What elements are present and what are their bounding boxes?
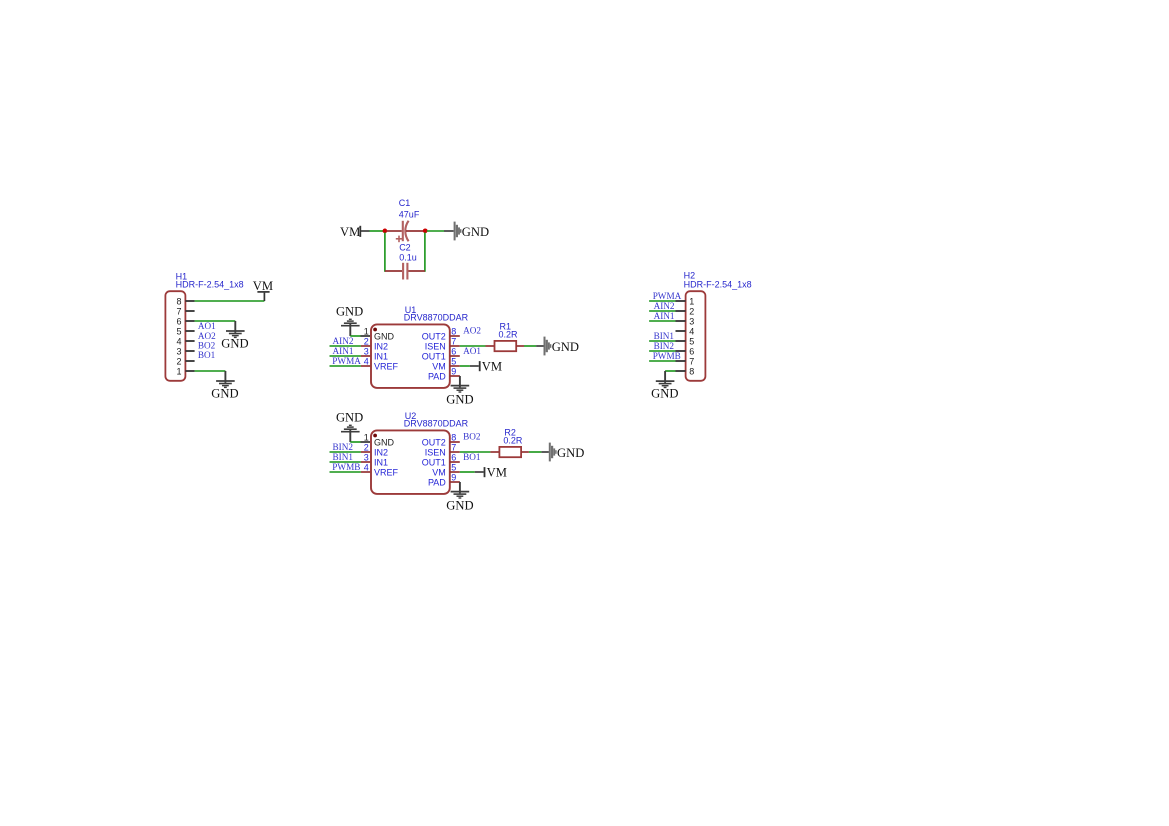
svg-text:8: 8	[176, 296, 181, 306]
wire H1 pin8 to VM	[195, 300, 265, 302]
U1 pin 7	[450, 337, 460, 347]
svg-text:2: 2	[689, 306, 694, 316]
ground GND (U2 PAD)	[446, 492, 473, 513]
H1 pin 5	[176, 326, 194, 336]
svg-text:2: 2	[364, 442, 369, 452]
svg-text:IN1: IN1	[374, 458, 388, 468]
U2 pin name VM	[432, 468, 446, 478]
svg-text:3: 3	[364, 452, 369, 462]
svg-text:1: 1	[689, 296, 694, 306]
U1 pin 6	[450, 347, 460, 357]
net label BO1	[463, 452, 481, 462]
svg-text:GND: GND	[336, 410, 363, 424]
U2 pin name VREF	[374, 468, 399, 478]
wire net AIN1 (H2 pin 3)	[649, 320, 675, 322]
wire U2 ISEN to R2	[460, 451, 500, 453]
svg-text:BIN2: BIN2	[333, 442, 354, 452]
svg-text:7: 7	[689, 356, 694, 366]
U2 pin name ISEN	[425, 448, 446, 458]
U1 pin 9	[450, 367, 460, 377]
wire net BIN2 (H2 pin 6)	[649, 350, 675, 352]
ground GND (H1 pin1)	[211, 371, 238, 400]
power flag VM (input cap)	[340, 225, 370, 239]
wire GND to U2 pin1	[350, 441, 370, 443]
wire junction to GND flag	[427, 230, 454, 232]
U2 pin-1 marker dot	[373, 434, 377, 438]
U2 pin name OUT1	[422, 458, 446, 468]
svg-text:AO1: AO1	[463, 346, 481, 356]
svg-text:BO2: BO2	[198, 340, 216, 350]
svg-text:VREF: VREF	[374, 362, 399, 372]
wire H1 pin1 to GND	[195, 370, 226, 372]
svg-text:4: 4	[364, 356, 369, 366]
svg-text:8: 8	[451, 433, 456, 443]
net label PWMA	[332, 356, 361, 366]
svg-text:8: 8	[689, 366, 694, 376]
svg-text:7: 7	[451, 443, 456, 453]
svg-text:GND: GND	[446, 393, 473, 407]
resistor R2 designator	[504, 428, 516, 438]
U2 pin 8	[450, 433, 460, 443]
svg-text:7: 7	[451, 337, 456, 347]
ground flag GND (U1 pin1)	[336, 304, 363, 336]
IC U1 body	[371, 324, 450, 388]
H2 pin 4	[676, 326, 695, 336]
svg-text:BO2: BO2	[463, 431, 481, 441]
U2 pin name PAD	[428, 478, 446, 488]
svg-text:OUT1: OUT1	[422, 352, 446, 362]
resistor R1	[495, 341, 517, 351]
svg-text:OUT2: OUT2	[422, 438, 446, 448]
U2 pin 9	[450, 473, 460, 483]
svg-text:3: 3	[176, 346, 181, 356]
svg-text:1: 1	[176, 366, 181, 376]
U1 pin name IN2	[374, 342, 388, 352]
H2 pin 5	[676, 336, 695, 346]
svg-text:AIN1: AIN1	[654, 311, 675, 321]
svg-text:AIN1: AIN1	[333, 346, 354, 356]
U1 pin name GND	[374, 332, 395, 342]
net label AIN2	[333, 336, 354, 346]
capacitor C2 designator	[399, 243, 411, 253]
svg-text:HDR-F-2.54_1x8: HDR-F-2.54_1x8	[176, 280, 244, 290]
net label AIN1	[333, 346, 354, 356]
svg-text:C2: C2	[399, 243, 411, 253]
connector H2 designator	[684, 270, 696, 280]
svg-text:IN2: IN2	[374, 342, 388, 352]
ground GND (H2 pin8)	[651, 371, 678, 401]
U1 pin 8	[450, 327, 460, 337]
svg-text:GND: GND	[221, 337, 248, 351]
resistor R2 value 0.2R	[503, 436, 523, 446]
ground GND (U1 PAD)	[446, 386, 473, 407]
wire U1 VM pin	[460, 365, 479, 367]
net label BO2	[198, 340, 216, 350]
net label AIN2 (H2)	[654, 301, 675, 311]
svg-text:IN2: IN2	[374, 448, 388, 458]
connector H2 body	[686, 291, 706, 381]
net label BIN2	[333, 442, 354, 452]
junction (right)	[423, 228, 428, 233]
H2 pin 2	[676, 306, 695, 316]
power flag VM (U1)	[480, 359, 502, 373]
svg-text:GND: GND	[557, 446, 584, 460]
wire U1 PAD to GND	[459, 376, 461, 387]
connector H1 footprint HDR-F-2.54_1x8	[176, 280, 244, 290]
svg-text:GND: GND	[651, 387, 678, 401]
wire GND to U1 pin1	[350, 335, 370, 337]
wire net BIN1	[330, 461, 361, 463]
H2 pin 8	[676, 366, 695, 376]
svg-text:6: 6	[451, 347, 456, 357]
U2 pin name GND	[374, 438, 395, 448]
IC U2 part number DRV8870DDAR	[404, 418, 469, 428]
wire R1 to GND flag	[516, 345, 543, 347]
wire C2 left lead	[385, 270, 402, 272]
wire C2 right lead	[408, 270, 425, 272]
wire C1 right plate to junction	[406, 230, 424, 232]
IC U1 designator	[405, 305, 417, 315]
svg-text:AO2: AO2	[463, 325, 481, 335]
svg-text:DRV8870DDAR: DRV8870DDAR	[404, 418, 469, 428]
svg-text:VM: VM	[487, 465, 507, 479]
svg-text:VREF: VREF	[374, 468, 399, 478]
resistor R1 designator	[500, 322, 512, 332]
net label BIN1	[333, 452, 354, 462]
net label BIN2 (H2)	[654, 341, 675, 351]
IC U2 body	[371, 430, 450, 494]
svg-text:2: 2	[364, 336, 369, 346]
svg-text:BO1: BO1	[198, 350, 216, 360]
svg-text:OUT2: OUT2	[422, 332, 446, 342]
wire U1 ISEN to R1	[460, 345, 495, 347]
ground GND (H1 pin6)	[221, 321, 248, 351]
wire U2 PAD to GND	[459, 482, 461, 493]
connector H1 designator	[176, 271, 188, 281]
svg-text:PWMA: PWMA	[653, 291, 682, 301]
IC U2 designator	[405, 411, 417, 421]
svg-text:8: 8	[451, 327, 456, 337]
H1 pin 4	[176, 336, 194, 346]
net label BIN1 (H2)	[654, 331, 675, 341]
U1 pin name VM	[432, 362, 446, 372]
svg-text:PWMA: PWMA	[332, 356, 361, 366]
U2 pin 6	[450, 453, 460, 463]
svg-text:0.2R: 0.2R	[503, 436, 523, 446]
svg-text:BO1: BO1	[463, 452, 481, 462]
svg-text:0.1u: 0.1u	[399, 252, 417, 262]
svg-text:AIN2: AIN2	[333, 336, 354, 346]
U1 pin-1 marker dot	[373, 328, 377, 332]
svg-text:3: 3	[364, 346, 369, 356]
wire net PWMB (H2 pin 7)	[649, 360, 675, 362]
wire net AIN2 (H2 pin 2)	[649, 310, 675, 312]
H1 pin 2	[176, 356, 194, 366]
svg-text:GND: GND	[446, 499, 473, 513]
wire H1 pin6 to GND	[195, 320, 236, 322]
svg-text:AO1: AO1	[198, 321, 216, 331]
svg-text:PAD: PAD	[428, 372, 446, 382]
H1 pin 6	[176, 316, 194, 326]
svg-text:2: 2	[176, 356, 181, 366]
svg-text:5: 5	[689, 336, 694, 346]
net label AO2	[463, 325, 481, 335]
U1 pin 1 number	[364, 326, 369, 336]
svg-text:BIN1: BIN1	[333, 452, 354, 462]
svg-text:BIN1: BIN1	[654, 331, 675, 341]
connector H1 body	[165, 291, 185, 381]
U1 pin name PAD	[428, 372, 446, 382]
capacitor C1 value 47uF	[399, 209, 420, 219]
U2 pin 2	[361, 442, 370, 452]
svg-text:4: 4	[364, 462, 369, 472]
U2 pin name IN2	[374, 448, 388, 458]
power flag VM (H1)	[253, 279, 273, 301]
U1 pin name OUT2	[422, 332, 446, 342]
svg-text:GND: GND	[552, 340, 579, 354]
capacitor C2 value 0.1u	[399, 252, 417, 262]
wire junction to C1 left plate	[387, 230, 402, 232]
net label PWMA (H2)	[653, 291, 682, 301]
svg-text:AIN2: AIN2	[654, 301, 675, 311]
ground flag GND (input cap)	[455, 222, 489, 241]
svg-text:PWMB: PWMB	[653, 351, 681, 361]
svg-text:GND: GND	[462, 225, 489, 239]
svg-text:VM: VM	[482, 359, 502, 373]
U1 pin name IN1	[374, 352, 388, 362]
U2 pin 4	[361, 462, 370, 472]
power flag VM (U2)	[485, 465, 507, 479]
U1 pin 2	[361, 336, 370, 346]
svg-text:6: 6	[689, 346, 694, 356]
svg-text:3: 3	[689, 316, 694, 326]
svg-text:OUT1: OUT1	[422, 458, 446, 468]
resistor R1 value 0.2R	[499, 330, 519, 340]
svg-text:GND: GND	[374, 438, 395, 448]
junction (left)	[383, 229, 388, 234]
svg-text:GND: GND	[336, 304, 363, 318]
svg-text:HDR-F-2.54_1x8: HDR-F-2.54_1x8	[684, 279, 752, 289]
svg-text:ISEN: ISEN	[425, 448, 446, 458]
wire net PWMA (H2 pin 1)	[649, 300, 675, 302]
U2 pin name IN1	[374, 458, 388, 468]
wire net PWMA	[330, 365, 361, 367]
net label PWMB (H2)	[653, 351, 681, 361]
svg-text:1: 1	[364, 432, 369, 442]
wire net AIN1	[330, 355, 361, 357]
svg-text:VM: VM	[340, 225, 360, 239]
net label AO1	[198, 321, 216, 331]
U2 pin 1 number	[364, 432, 369, 442]
U2 pin 3	[361, 452, 370, 462]
U1 pin 5	[450, 357, 460, 367]
svg-text:7: 7	[176, 306, 181, 316]
H1 pin 7	[176, 306, 194, 316]
ground flag GND (U2 pin1)	[336, 410, 363, 442]
U1 pin name OUT1	[422, 352, 446, 362]
net label AO2	[198, 331, 216, 341]
U1 pin 4	[361, 356, 370, 366]
net label BO1	[198, 350, 216, 360]
H1 pin 3	[176, 346, 194, 356]
wire net BIN1 (H2 pin 5)	[649, 340, 675, 342]
H1 pin 1	[176, 366, 194, 376]
U1 pin 3	[361, 346, 370, 356]
svg-text:47uF: 47uF	[399, 209, 420, 219]
svg-text:5: 5	[451, 463, 456, 473]
svg-text:ISEN: ISEN	[425, 342, 446, 352]
wire net AIN2	[330, 345, 361, 347]
svg-text:6: 6	[451, 453, 456, 463]
wire right vertical to C2	[424, 233, 426, 272]
svg-text:0.2R: 0.2R	[499, 330, 519, 340]
svg-text:VM: VM	[432, 468, 446, 478]
net label AIN1 (H2)	[654, 311, 675, 321]
svg-text:6: 6	[176, 316, 181, 326]
svg-text:9: 9	[451, 473, 456, 483]
H1 pin 8	[176, 296, 194, 306]
ground flag GND (R2)	[550, 443, 584, 462]
svg-text:4: 4	[176, 336, 181, 346]
net label BO2	[463, 431, 481, 441]
svg-text:VM: VM	[253, 279, 273, 293]
H2 pin 1	[676, 296, 695, 306]
capacitor C2	[403, 263, 407, 280]
svg-text:9: 9	[451, 367, 456, 377]
wire VM to junction	[370, 230, 385, 232]
wire H2 pin8 to GND	[665, 370, 675, 372]
svg-text:GND: GND	[211, 386, 238, 400]
svg-text:VM: VM	[432, 362, 446, 372]
ground flag GND (R1)	[545, 337, 579, 356]
connector H2 footprint HDR-F-2.54_1x8	[684, 279, 752, 289]
svg-text:5: 5	[451, 357, 456, 367]
svg-text:IN1: IN1	[374, 352, 388, 362]
resistor R2	[499, 447, 521, 457]
wire left vertical to C2	[384, 233, 386, 272]
U1 pin name ISEN	[425, 342, 446, 352]
net label AO1	[463, 346, 481, 356]
U2 pin name OUT2	[422, 438, 446, 448]
capacitor C1 designator	[399, 198, 411, 208]
H2 pin 7	[676, 356, 695, 366]
U2 pin 7	[450, 443, 460, 453]
svg-text:4: 4	[689, 326, 694, 336]
svg-text:GND: GND	[374, 332, 395, 342]
IC U1 part number DRV8870DDAR	[404, 312, 469, 322]
svg-text:C1: C1	[399, 198, 411, 208]
H2 pin 3	[676, 316, 695, 326]
capacitor C1 (polarized)	[396, 221, 409, 242]
wire net BIN2	[330, 451, 361, 453]
U1 pin name VREF	[374, 362, 399, 372]
U2 pin 5	[450, 463, 460, 473]
svg-text:5: 5	[176, 326, 181, 336]
wire U2 VM pin	[460, 471, 484, 473]
H2 pin 6	[676, 346, 695, 356]
svg-text:1: 1	[364, 326, 369, 336]
svg-text:PAD: PAD	[428, 478, 446, 488]
net label PWMB	[332, 462, 360, 472]
svg-text:DRV8870DDAR: DRV8870DDAR	[404, 312, 469, 322]
svg-text:PWMB: PWMB	[332, 462, 360, 472]
wire net PWMB	[330, 471, 361, 473]
svg-text:BIN2: BIN2	[654, 341, 675, 351]
wire R2 to GND flag	[521, 451, 549, 453]
